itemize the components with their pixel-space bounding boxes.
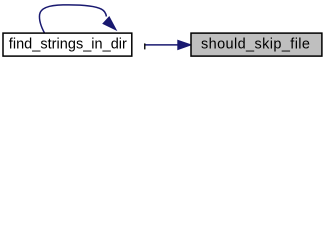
svg-text:find_strings_in_dir: find_strings_in_dir	[9, 37, 127, 53]
svg-text:should_skip_file: should_skip_file	[201, 37, 310, 53]
